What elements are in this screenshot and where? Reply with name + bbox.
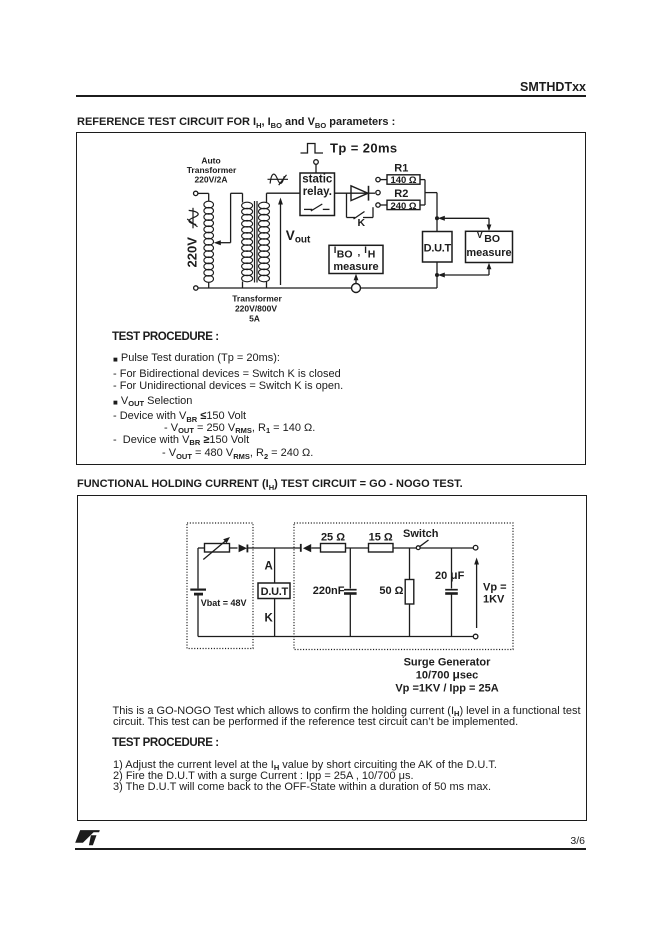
svg-text:220nF: 220nF bbox=[313, 585, 345, 597]
svg-text:20 μF: 20 μF bbox=[435, 568, 465, 582]
svg-text:1KV: 1KV bbox=[483, 594, 505, 606]
svg-text:D.U.T: D.U.T bbox=[261, 586, 289, 598]
svg-text:Vbat = 48V: Vbat = 48V bbox=[201, 598, 247, 608]
svg-text:Vp =: Vp = bbox=[483, 582, 507, 594]
svg-text:A: A bbox=[265, 561, 273, 573]
svg-text:25 Ω: 25 Ω bbox=[321, 532, 345, 544]
svg-text:50 Ω: 50 Ω bbox=[379, 585, 403, 597]
svg-text:Surge Generator: Surge Generator bbox=[404, 657, 492, 669]
svg-text:10/700 μsec: 10/700 μsec bbox=[416, 668, 478, 682]
svg-text:Switch: Switch bbox=[403, 528, 439, 540]
svg-text:15 Ω: 15 Ω bbox=[369, 532, 393, 544]
svg-text:K: K bbox=[265, 613, 274, 625]
svg-text:Vp =1KV / Ipp = 25A: Vp =1KV / Ipp = 25A bbox=[395, 683, 498, 695]
